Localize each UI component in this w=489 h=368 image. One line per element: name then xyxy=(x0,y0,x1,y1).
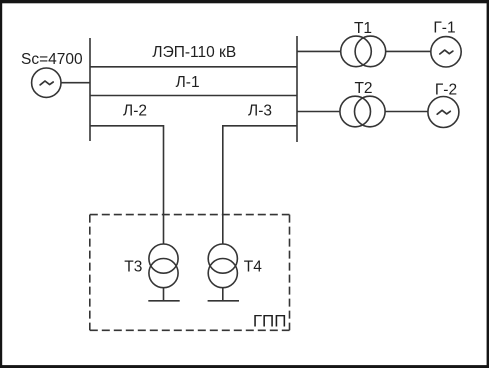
bus left xyxy=(89,38,91,141)
svg-text:Т4: Т4 xyxy=(244,258,262,275)
svg-text:ЛЭП-110 кВ: ЛЭП-110 кВ xyxy=(152,44,236,61)
wire line LEP-110 xyxy=(90,66,297,68)
svg-text:Т1: Т1 xyxy=(354,20,372,37)
label Т3 xyxy=(124,258,142,275)
wire bus to T1 xyxy=(297,50,341,52)
label Л-2 xyxy=(123,103,147,120)
label Г-2 xyxy=(435,81,457,98)
label Т2 xyxy=(354,80,372,97)
label ЛЭП-110 кВ xyxy=(152,44,236,61)
wire line Л-2 xyxy=(90,126,164,244)
substation boundary ГПП xyxy=(90,215,290,331)
label Т4 xyxy=(244,258,262,275)
label Т1 xyxy=(354,20,372,37)
border frame xyxy=(0,0,489,3)
transformer T3 xyxy=(149,244,178,288)
wire source lead xyxy=(61,82,90,84)
label Л-1 xyxy=(176,74,200,91)
wire line Л-3 xyxy=(223,126,297,244)
generator Г-1 xyxy=(431,37,461,67)
wire T1 to G-1 xyxy=(386,50,431,52)
svg-text:Л-2: Л-2 xyxy=(123,103,147,120)
label Г-1 xyxy=(433,20,455,37)
label ГПП xyxy=(253,312,287,331)
svg-text:Л-3: Л-3 xyxy=(248,103,272,120)
wire T4 secondary lead xyxy=(222,288,224,301)
source G (system) xyxy=(32,68,61,97)
generator Г-2 xyxy=(428,97,459,128)
wire T2 to G-2 xyxy=(385,111,428,113)
svg-text:ГПП: ГПП xyxy=(253,312,287,331)
transformer T2 xyxy=(340,96,385,127)
wire bus to T2 xyxy=(297,111,340,113)
svg-text:Г-2: Г-2 xyxy=(435,81,457,98)
svg-text:Г-1: Г-1 xyxy=(433,20,455,37)
bus right xyxy=(296,36,298,142)
label Sc=4700 xyxy=(21,51,83,68)
svg-text:Л-1: Л-1 xyxy=(176,74,200,91)
label Л-3 xyxy=(248,103,272,120)
svg-text:Т3: Т3 xyxy=(124,258,142,275)
wire line Л-1 xyxy=(90,95,297,97)
svg-text:Sc=4700: Sc=4700 xyxy=(21,51,83,68)
T4 terminal bar xyxy=(208,300,239,302)
transformer T1 xyxy=(341,36,386,67)
svg-text:Т2: Т2 xyxy=(354,80,372,97)
wire T3 secondary lead xyxy=(163,288,165,301)
T3 terminal bar xyxy=(148,300,179,302)
transformer T4 xyxy=(208,244,237,288)
